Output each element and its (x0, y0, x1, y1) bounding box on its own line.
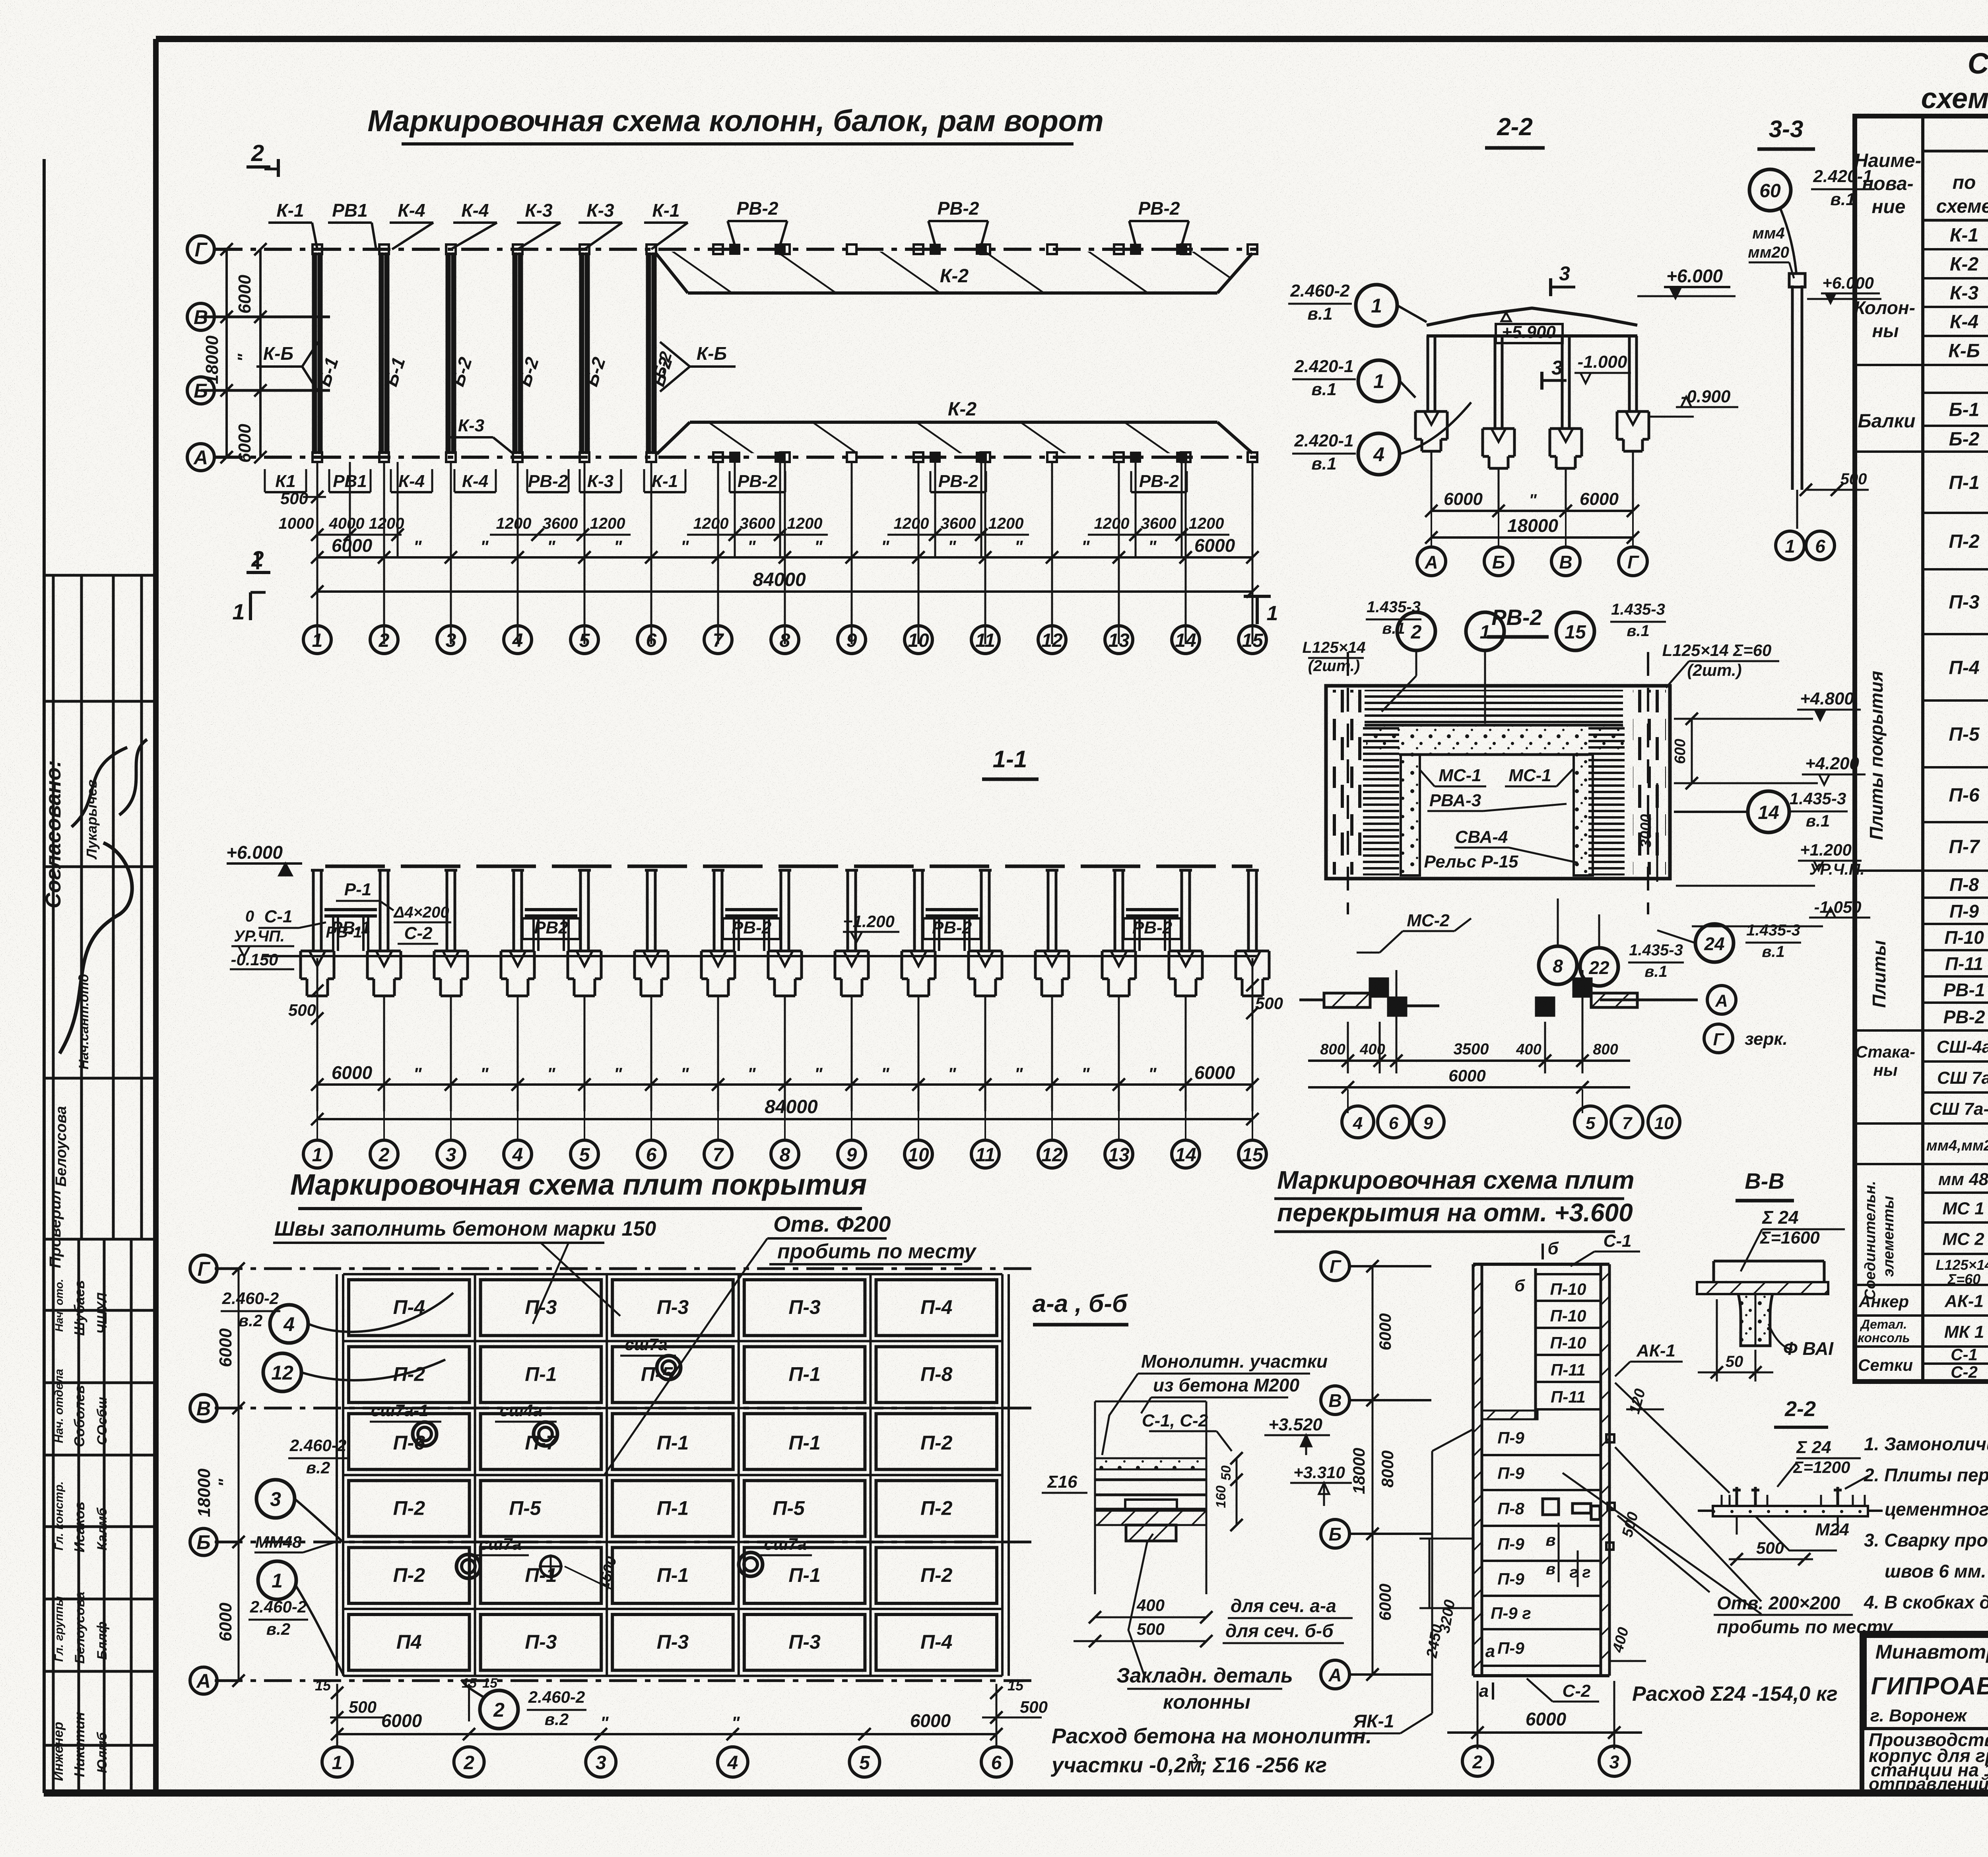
roof beam band K-2 bottom (hatched) (657, 422, 1252, 453)
strip walls (1473, 1264, 1482, 1676)
strip lower plates P-9/P-8 (1482, 1454, 1601, 1456)
leader circles 8 and 22 (1539, 946, 1577, 984)
row lines (1923, 248, 1988, 250)
section axis circles 1..15 (316, 1093, 318, 1140)
title block: org box (1865, 1636, 1988, 1729)
a-a layered slab (1094, 1401, 1096, 1594)
title block (1862, 1633, 1988, 1793)
plate grid axis lines (215, 1267, 1034, 1270)
plan axis line B (201, 389, 330, 392)
3-3 axis circles 1 6 (1776, 531, 1804, 560)
sheet frame (156, 36, 1988, 42)
plan axis line A (215, 456, 1258, 459)
plate grid left dims (238, 1269, 240, 1680)
dim 500 left (303, 496, 326, 498)
leader circle 2 below grid (480, 1690, 518, 1729)
dim line 84000 (317, 590, 1252, 593)
main dim line 6000 row (317, 556, 1252, 559)
grid axis circles 1..6 (322, 1747, 352, 1777)
table outer border (1855, 116, 1988, 1382)
plan axis circles 1..15 (303, 626, 331, 654)
sub-dimension chains 1200 3600 1200 (317, 534, 402, 536)
dim 500 bottoms (316, 958, 318, 1034)
column squares on axes G and A, axes 6..15 (646, 244, 656, 254)
table column lines (1921, 116, 1924, 1382)
section dim line 6000 (317, 1083, 1252, 1086)
ground line (262, 955, 1258, 957)
RV-2 axis dashed verticals (1347, 652, 1349, 914)
level line +6.000 (325, 865, 1252, 868)
plate grid cells (349, 1280, 470, 1335)
V-V hatched slab band (1697, 1282, 1828, 1294)
plan axis line G (215, 248, 1258, 251)
portal witness pairs (734, 462, 736, 557)
axis circles A G mirrored (1707, 986, 1736, 1014)
V-V rib (1738, 1294, 1773, 1346)
beams B-1/B-2 on axes 1..6 (312, 252, 317, 454)
strip dims 800 400 3500 400 800 (1347, 1022, 1349, 1073)
strip axis circles (1321, 1252, 1349, 1281)
gate frames RV in section (324, 908, 377, 911)
3-3 column (1791, 285, 1794, 490)
RV-2 inner posts (1401, 755, 1420, 875)
strip top plates P-10 P-11 (1534, 1268, 1537, 1418)
left approval stamp strip (44, 574, 156, 577)
plan left dimension chain (225, 249, 228, 457)
RV-2 bottom axis circles 4 6 9 / 5 7 10 (1342, 1106, 1374, 1138)
shoe labels and ring marks (657, 1356, 681, 1380)
RV-2 foundation plan strip (1299, 999, 1324, 1001)
strip axis circles 2 3 (1462, 1746, 1493, 1776)
grid bottom dims (336, 1684, 338, 1745)
table header lines (1923, 150, 1988, 153)
section 3 marks (1549, 278, 1552, 296)
section mark 1 (right) (1256, 596, 1259, 624)
plate grid outer border (343, 1273, 1002, 1275)
section 2-2 roof beam (1427, 308, 1637, 325)
plan axis circles G V B A (187, 236, 214, 263)
2-2 dim lines (1431, 510, 1633, 512)
grid main dim line (337, 1733, 996, 1735)
RV-2 outer box with hatches (1326, 686, 1670, 879)
small openings (1543, 1499, 1559, 1515)
section 2-2 columns (1427, 336, 1429, 411)
RV-2 top leader circles (1397, 612, 1435, 650)
monolith hatch band (1482, 1411, 1538, 1419)
section 1-1 columns with footings (312, 870, 315, 951)
roof beam band K-2 top (hatched) (655, 252, 1252, 293)
strip left dims (1372, 1266, 1374, 1675)
V-V top slab outline (1714, 1260, 1824, 1263)
strip bottom dim (1477, 1681, 1479, 1749)
plate grid axis circles G V B A (190, 1255, 217, 1282)
2-2 axis circles (1431, 511, 1432, 545)
long diagonal leaders (1615, 1383, 1730, 1493)
a-a bottom dims (1095, 1616, 1206, 1618)
section dim 84000 (317, 1118, 1252, 1120)
witness lines below axis A (316, 462, 318, 644)
baseplate with bolts (1713, 1506, 1868, 1516)
plan axis line V (201, 316, 330, 318)
V-V dim 50 (1716, 1299, 1718, 1382)
3-3 labels (1749, 169, 1791, 211)
